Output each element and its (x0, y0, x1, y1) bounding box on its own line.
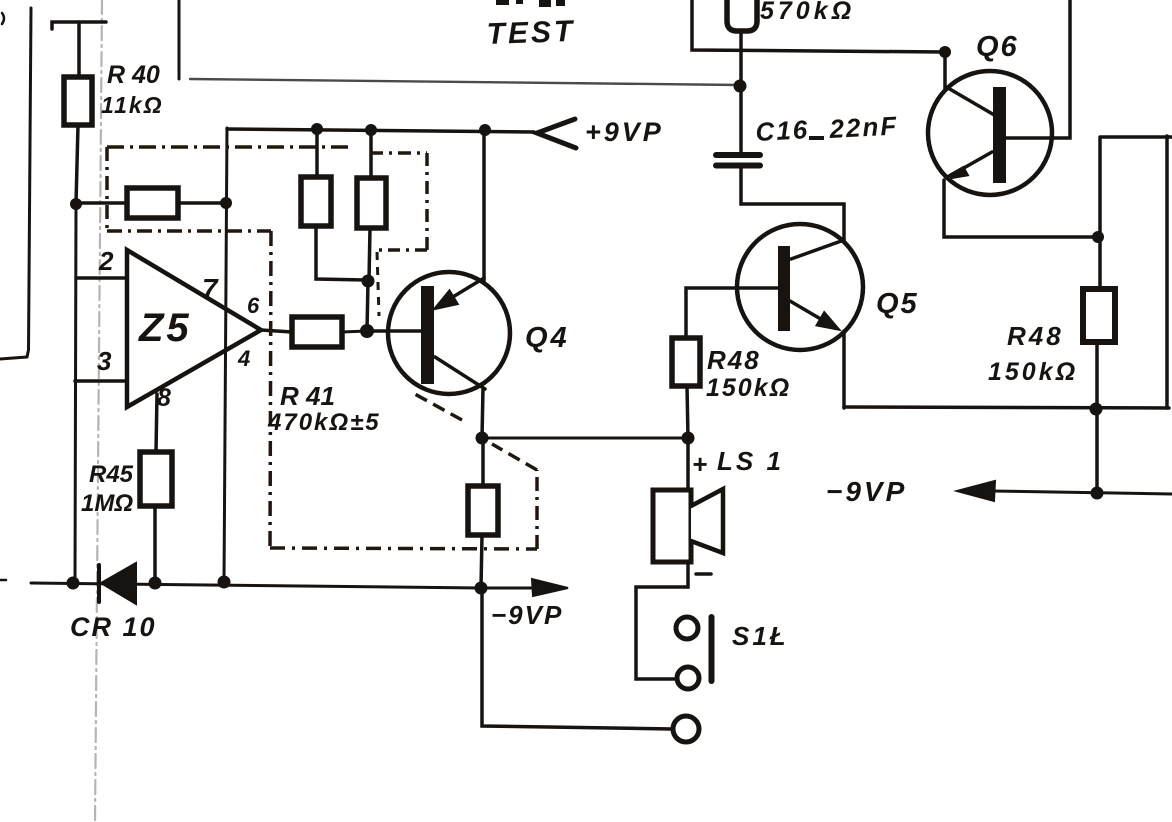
node junction rail / Q4 collector (479, 124, 491, 136)
op-amp Z5 (127, 250, 261, 407)
wire Q4 base (367, 329, 421, 333)
fold line (faint dash-dot) (95, 0, 102, 822)
transistor Q6 (928, 71, 1052, 195)
wire apex to R41 (261, 330, 292, 332)
node junction -9VP bottom (475, 582, 488, 595)
wire right loop top (1100, 135, 1172, 139)
switch S1L bar (709, 617, 715, 681)
wire R41 to base node (342, 331, 367, 332)
wire R48 right bottom lead (1095, 342, 1099, 494)
svg-text:1MΩ: 1MΩ (81, 490, 133, 517)
wire Rf right lead (178, 201, 227, 205)
wire C16 bottom lead to Q5 collector (741, 168, 844, 241)
diode CR10 bar (97, 565, 101, 602)
node junction x227 / bottom rail (218, 576, 231, 589)
switch S1L contact upper (676, 617, 698, 639)
svg-text:Q5: Q5 (876, 288, 919, 320)
resistor Ra (301, 177, 331, 226)
svg-text:CR 10: CR 10 (70, 612, 157, 642)
resistor 570k (cut at top) (727, 0, 757, 31)
wire vertical x227 rail corner to bottom (224, 128, 227, 582)
dash-dot module boundary bottom (270, 548, 537, 549)
node junction Ra/Rb (362, 275, 375, 288)
dash-dot notch top (370, 151, 427, 155)
resistor emitter (unlabeled) (468, 486, 498, 535)
wire Rb bottom lead (369, 228, 370, 281)
svg-text:470kΩ±5: 470kΩ±5 (267, 409, 381, 436)
capacitor C16 plates (716, 152, 760, 158)
dash-dot notch right (425, 153, 429, 250)
node junction R41 / Q4 base (360, 324, 374, 338)
node junction LS1 top (682, 432, 695, 445)
svg-text:LS 1: LS 1 (717, 446, 784, 476)
resistor Rb (357, 178, 386, 228)
wire C16 top lead (739, 52, 743, 151)
wire left vertical x76 (75, 204, 76, 583)
svg-text:Q4: Q4 (525, 322, 570, 354)
speaker LS1 (653, 490, 691, 562)
svg-text:150kΩ: 150kΩ (706, 374, 791, 402)
svg-text:−9VP: −9VP (491, 600, 563, 630)
arrow -9VP bottom (filled, points right) (532, 579, 568, 596)
resistor R41 (292, 317, 342, 347)
wire R45 bottom lead (153, 506, 157, 583)
wire Rf left lead (76, 201, 127, 205)
node junction 570k line / Q6 (939, 46, 951, 58)
node junction long line / C16 (734, 80, 747, 93)
dash-dot module boundary diagonal (492, 444, 537, 470)
wire +9VP rail (227, 129, 534, 132)
wire left border vertical (27, 8, 31, 357)
wire left border bottom stub (0, 357, 27, 359)
wire LS1 top lead (686, 438, 690, 490)
dash-dot module boundary top (107, 145, 353, 149)
resistor R48 right (1083, 289, 1115, 342)
wire top stub over R40 (52, 22, 106, 29)
dash-dot module boundary right vertical (535, 470, 539, 549)
wire Q4 collector vertical to rail (482, 130, 486, 281)
dash-dot notch bottom (375, 248, 427, 252)
wire bottom long rail (31, 583, 481, 588)
wire -9VP arrow line (481, 587, 540, 590)
resistor R45 (140, 452, 172, 506)
wire jack to -9VP node (482, 588, 672, 729)
wire resistor Rb top lead (369, 130, 373, 178)
node junction rail top resistor Ra (311, 123, 323, 135)
node junction Q4 emitter (476, 432, 489, 445)
svg-text:2: 2 (98, 246, 114, 276)
wire 570k bottom lead (739, 31, 743, 51)
dash-dot notch drop (377, 252, 379, 316)
svg-text:+: + (692, 449, 707, 479)
wire pin2 stub (76, 276, 127, 280)
mark top-left (2, 13, 4, 24)
wire R48 right top lead (1098, 138, 1102, 289)
transistor Q4 (388, 272, 510, 394)
svg-text:R45: R45 (89, 461, 134, 488)
arrow -9VP right (filled, points left) (957, 481, 995, 501)
wire Q6 emitter to R48 top node (944, 180, 1097, 237)
svg-text:7: 7 (202, 273, 219, 304)
wire pin8 lead (156, 394, 157, 452)
node junction rail top resistor Rb (365, 124, 377, 136)
wire long horizontal to C16 node (190, 79, 740, 85)
svg-text:4: 4 (237, 346, 250, 371)
node junction R40/Rf (70, 198, 82, 210)
wire Q4 emitter node to LS1 (482, 437, 688, 440)
node junction Rf/vertical (220, 197, 232, 209)
diode CR10 (101, 563, 136, 604)
jack circle (673, 716, 699, 742)
svg-text:C16: C16 (755, 114, 810, 147)
wire top x692 corner (692, 0, 945, 52)
svg-text:R 40: R 40 (107, 61, 160, 89)
wire emitter resistor top lead (481, 438, 485, 486)
wire Q5 emitter horizontal (844, 407, 1169, 408)
svg-text:R48: R48 (1007, 321, 1064, 351)
node junction Q6 emitter / R48 right (1092, 231, 1104, 243)
arrow +9VP chevron (537, 119, 576, 148)
wire node to Q4 base node (367, 281, 368, 331)
dash-dot module boundary left upper (105, 147, 109, 231)
svg-text:3: 3 (97, 346, 112, 376)
svg-text:570kΩ: 570kΩ (760, 0, 855, 25)
wire Q4 emitter vertical (482, 388, 483, 438)
wire Q5 base lead (686, 288, 778, 338)
resistor R40 (64, 77, 92, 125)
svg-text:+9VP: +9VP (585, 117, 664, 147)
node junction Q5 emitter / R48 (1090, 403, 1103, 416)
svg-text:S1Ł: S1Ł (732, 621, 789, 651)
svg-text:11kΩ: 11kΩ (101, 92, 164, 118)
node junction -9VP right (1091, 487, 1104, 500)
wire pin3 stub (75, 379, 127, 383)
wire R48 left bottom lead (687, 386, 688, 438)
resistor feedback (op-amp) (127, 188, 178, 218)
svg-text:R48: R48 (707, 345, 761, 375)
wire Q6 base lead (1006, 0, 1070, 138)
wire R40 bottom lead (76, 125, 78, 204)
svg-text:R 41: R 41 (280, 381, 335, 411)
dash-dot module boundary step (107, 229, 271, 233)
wire Ra bottom lead (316, 226, 366, 280)
svg-text:Q6: Q6 (976, 31, 1019, 63)
label cut text top (496, 0, 509, 5)
dash-dot module boundary left lower (270, 231, 271, 548)
node junction R45 / bottom rail (149, 577, 162, 590)
wire Q5 emitter vertical (842, 331, 846, 408)
svg-text:−9VP: −9VP (826, 476, 907, 507)
switch S1L contact lower (677, 667, 699, 689)
svg-text:8: 8 (157, 384, 171, 412)
svg-text:TEST: TEST (486, 15, 576, 51)
wire -9VP right rail (992, 491, 1172, 494)
wire LS1 bottom to switch (636, 562, 688, 679)
svg-text:Z5: Z5 (138, 306, 192, 350)
wire Q6 collector lead (943, 52, 947, 90)
svg-text:22nF: 22nF (828, 110, 899, 144)
svg-text:6: 6 (247, 293, 260, 318)
wire resistor Ra top lead (315, 129, 319, 177)
wire LS1 minus mark (696, 572, 711, 576)
wire R40 top lead (77, 22, 81, 77)
wire emitter resistor bottom lead (481, 535, 482, 588)
transistor Q5 (737, 224, 863, 350)
wire right loop vertical (1165, 136, 1169, 408)
wire top stub x179 (178, 0, 181, 79)
node junction x76 / bottom rail (67, 577, 80, 590)
resistor R48 left (672, 338, 700, 386)
svg-text:150kΩ: 150kΩ (988, 358, 1078, 386)
